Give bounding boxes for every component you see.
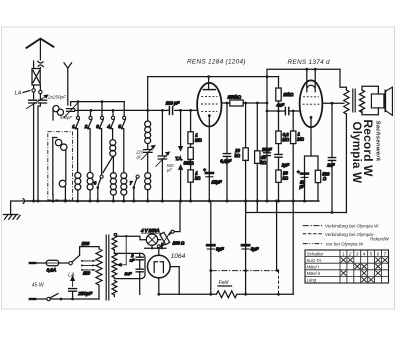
- mains switch S1b: [47, 294, 99, 301]
- switch contact 2: [84, 110, 92, 172]
- wire lamp cathode row: [145, 245, 166, 248]
- svg-text:2μF: 2μF: [281, 163, 290, 168]
- svg-text:RekordW: RekordW: [370, 237, 390, 242]
- svg-text:Verbindung bei Olympia W: Verbindung bei Olympia W: [325, 224, 379, 229]
- svg-text:2nF: 2nF: [326, 162, 335, 167]
- tube U1 cathode: [208, 114, 211, 201]
- transformer T1 core: [106, 235, 109, 301]
- tube U2 RENS1374d envelope: [300, 80, 323, 127]
- antenna A: [26, 39, 54, 61]
- svg-text:7: 7: [384, 251, 387, 256]
- terminal LA (antenna): [15, 89, 43, 97]
- svg-text:Mittel II: Mittel II: [307, 271, 321, 276]
- svg-text:Record W: Record W: [361, 120, 375, 178]
- coil L7: [121, 173, 127, 201]
- antenna terminal fork 2: [64, 63, 72, 105]
- capacitor C 10uF: [297, 169, 308, 189]
- svg-text:MΩ: MΩ: [195, 138, 202, 143]
- output transformer T2 core: [353, 89, 355, 113]
- capacitor C cathode 15uF: [203, 168, 222, 185]
- label 45W: [32, 283, 45, 289]
- electrolytic 8uF no1: [207, 201, 224, 294]
- coupling coil L1 with trimmer 550pF: [53, 104, 77, 120]
- shield box (dash-dot): [48, 132, 73, 200]
- output transformer T2 secondary: [359, 90, 364, 112]
- svg-text:kΩ: kΩ: [195, 175, 201, 180]
- svg-text:Kurz TA: Kurz TA: [307, 258, 322, 263]
- transformer T1 secondary S2: [112, 253, 117, 277]
- svg-text:50kΩ: 50kΩ: [184, 161, 195, 166]
- wire L5 diagonal to contact 6: [103, 156, 113, 172]
- svg-text:4: 4: [363, 251, 366, 256]
- svg-text:MΩ: MΩ: [297, 137, 304, 142]
- svg-text:pF: pF: [136, 154, 142, 159]
- label RENS 1284 (1204): [187, 59, 246, 66]
- tube U1 grids: [201, 97, 218, 112]
- wire lamp node to bus: [175, 201, 180, 232]
- svg-text:15μF: 15μF: [212, 180, 222, 185]
- tap arrow S2: [118, 235, 128, 266]
- legend line Olympia-Record W (dashed): [303, 232, 390, 242]
- parallel block node wires: [305, 156, 319, 201]
- coil L9: [145, 173, 151, 201]
- capacitor C 2uF: [275, 144, 290, 170]
- coil L3: [75, 172, 81, 201]
- wire S2 loop to rectifier: [114, 253, 145, 278]
- svg-text:μF: μF: [299, 184, 305, 189]
- capacitor 250pF: [69, 289, 93, 299]
- label RENS 1374 d: [288, 59, 331, 66]
- svg-text:8μF: 8μF: [251, 246, 259, 251]
- variable capacitor 220pF: [141, 146, 154, 173]
- svg-text:550pF: 550pF: [60, 115, 72, 120]
- connector hook on ground bus: [23, 199, 24, 204]
- legend line Olympia W (dash-dot): [303, 224, 379, 229]
- wire screen feed: [276, 201, 278, 271]
- svg-text:kΩ: kΩ: [261, 160, 267, 165]
- resistor R5 20kOhm: [234, 103, 248, 201]
- field coil resistor zigzag: [159, 291, 293, 298]
- variable capacitor 500pF: [156, 110, 169, 201]
- switch contact 6: [94, 175, 104, 201]
- brand text Sachsenwerk: [375, 121, 381, 162]
- resistor R2 50kOhm: [184, 144, 195, 166]
- svg-text:RENS 1284 (1204): RENS 1284 (1204): [187, 59, 246, 66]
- lightning arrester: [32, 61, 40, 99]
- svg-text:pF: pF: [166, 168, 172, 173]
- label 220pF: [135, 150, 144, 160]
- switch contact 4: [107, 110, 114, 139]
- resistor R8 0,2MOhm: [276, 111, 290, 144]
- coil L8 tall: [145, 77, 151, 149]
- svg-text:1: 1: [342, 251, 345, 256]
- dashed link wire: [278, 271, 280, 295]
- svg-text:0,8A: 0,8A: [47, 267, 56, 272]
- resistor R9 80kOhm: [276, 170, 289, 201]
- svg-text:110: 110: [83, 271, 91, 276]
- wire heater S1 to lamp: [114, 234, 146, 240]
- coil L2 in shield box: [53, 138, 67, 195]
- resistor R7 10kOhm: [276, 77, 294, 111]
- tube U2 grids: [303, 97, 320, 104]
- svg-text:10kΩ: 10kΩ: [283, 92, 294, 97]
- svg-text:4nF: 4nF: [276, 103, 284, 108]
- svg-text:2nF: 2nF: [124, 271, 132, 276]
- svg-text:220: 220: [81, 241, 90, 246]
- field coil Feld: [218, 280, 232, 286]
- terminal LA (lamp): [68, 272, 75, 278]
- svg-text:6: 6: [94, 180, 97, 185]
- resistor R11 500Ohm: [315, 170, 330, 201]
- svg-text:Feld: Feld: [219, 280, 229, 286]
- arrow LA: [71, 277, 74, 287]
- svg-text:110 pF: 110 pF: [166, 100, 180, 105]
- switch contact 7: [130, 175, 140, 201]
- svg-text:45 W: 45 W: [32, 283, 45, 289]
- svg-text:Lang: Lang: [307, 278, 317, 283]
- capacitor C 4nF coupling: [267, 103, 300, 115]
- wire grid bus y110: [75, 109, 198, 111]
- speaker: [362, 86, 392, 115]
- svg-text:kΩ: kΩ: [235, 153, 241, 158]
- switch contact 5: [118, 102, 125, 172]
- wire 220 tap: [80, 241, 99, 255]
- wire bottom return up: [292, 201, 294, 294]
- svg-text:RENS 1374 d: RENS 1374 d: [288, 59, 331, 66]
- pickup terminal TA: [175, 110, 182, 201]
- voltage taps arrows: [81, 260, 96, 276]
- capacitor C 2nF tone: [326, 103, 335, 212]
- output transformer T2 primary: [344, 87, 349, 212]
- rectifier anodes: [154, 262, 163, 273]
- label 1064: [171, 253, 186, 260]
- svg-text:25μF: 25μF: [261, 147, 272, 152]
- capacitor 2nF rect lower: [124, 269, 144, 294]
- tube U2 cathode: [310, 116, 313, 156]
- svg-text:Verbindung bei Olympia-: Verbindung bei Olympia-: [325, 232, 375, 237]
- mains lead 2: [30, 298, 47, 300]
- tube U1 RENS1284 envelope: [197, 83, 221, 127]
- svg-text:LA: LA: [68, 272, 75, 278]
- ground symbol: [4, 201, 24, 219]
- resistor R6 60kOhm: [255, 103, 267, 201]
- pilot lamp 4V 10RA: [141, 228, 162, 246]
- svg-text:3: 3: [356, 251, 359, 256]
- svg-text:7: 7: [130, 180, 133, 185]
- svg-text:100 Ω: 100 Ω: [173, 240, 185, 245]
- transformer T1 secondary S3: [112, 281, 117, 297]
- svg-text:6: 6: [377, 251, 380, 256]
- svg-text:nF: nF: [130, 258, 135, 263]
- bus 2: [246, 201, 347, 213]
- svg-text:+: +: [297, 169, 300, 174]
- wire B+ to transformer: [340, 69, 346, 87]
- svg-text:1064: 1064: [171, 253, 186, 260]
- resistor R1 1MOhm: [188, 110, 203, 143]
- wire anode top bus: [148, 76, 279, 78]
- table row labels: [307, 258, 322, 283]
- legend line nur bei Olympia W (dash-dot-dot): [303, 242, 364, 247]
- svg-text:250pF: 250pF: [77, 291, 93, 297]
- resistor R3 1kOhm: [188, 159, 201, 201]
- switch table frame: [305, 250, 389, 283]
- tube U2 heater top: [307, 69, 315, 92]
- svg-text:kΩ: kΩ: [283, 176, 289, 181]
- capacitor 110pF: [166, 100, 180, 114]
- trimmer capacitor 2x250pF: [27, 95, 48, 108]
- table header labels: [307, 251, 387, 256]
- dash-dot link wire: [211, 270, 279, 272]
- transformer T1 secondary S1: [112, 234, 117, 253]
- wire L1 to switch bus: [71, 102, 125, 106]
- wire box coil to ground bus: [53, 187, 65, 201]
- svg-text:2: 2: [348, 251, 352, 256]
- label 500pF: [166, 163, 174, 173]
- fuse 0,8A: [46, 260, 69, 272]
- rectifier top lead: [157, 245, 160, 256]
- svg-text:Sachsenwerk: Sachsenwerk: [375, 121, 381, 162]
- switch contact 3: [96, 102, 103, 175]
- wire rectifier output: [159, 267, 179, 295]
- svg-text:T.A.: T.A.: [175, 156, 182, 161]
- svg-text:Olympia W: Olympia W: [350, 122, 363, 184]
- capacitor C 0,1uF: [220, 103, 231, 201]
- transformer T1 primary: [96, 247, 102, 299]
- brand text Olympia W: [350, 122, 363, 184]
- antenna plug break: [38, 61, 44, 67]
- table X marks: [341, 257, 388, 282]
- svg-text:MΩ: MΩ: [282, 137, 289, 142]
- resistor R12 100Ohm: [158, 230, 185, 246]
- wire U2 anode to output transformer: [322, 102, 344, 104]
- wire antenna coupling down: [34, 103, 41, 201]
- mains switch S1a: [69, 255, 80, 265]
- resistor R4 258kOhm: [222, 94, 268, 106]
- svg-text:4 V 10RA: 4 V 10RA: [141, 228, 160, 233]
- svg-text:5: 5: [370, 251, 373, 256]
- coil L5 (osc mid): [110, 140, 116, 157]
- mains lead 1: [30, 262, 47, 264]
- svg-text:Schalter: Schalter: [307, 251, 324, 256]
- svg-text:8μF: 8μF: [216, 246, 224, 251]
- switch contact 1: [72, 102, 79, 172]
- svg-text:+: +: [203, 168, 206, 173]
- coil L6: [110, 156, 116, 201]
- wire top bus 2: [267, 69, 340, 201]
- svg-text:LA: LA: [15, 91, 22, 97]
- label 550pF: [60, 115, 72, 120]
- capacitor C 25uF: [261, 147, 272, 156]
- ground bus wire: [26, 200, 319, 202]
- coil L4: [87, 172, 93, 201]
- rectifier tube V3 1064: [148, 255, 171, 278]
- electrolytic 8uF no2: [242, 201, 259, 294]
- tube U1 anode: [203, 77, 215, 90]
- svg-text:Mittel I: Mittel I: [307, 265, 320, 270]
- resistor R10 1MOhm grid2: [291, 111, 305, 201]
- brand text Record W: [361, 120, 375, 178]
- svg-text:2x250pF: 2x250pF: [47, 94, 67, 99]
- capacitor 2nF rect upper: [130, 253, 143, 268]
- svg-text:258kΩ: 258kΩ: [227, 94, 242, 99]
- svg-text:nur bei Olympia W: nur bei Olympia W: [326, 242, 364, 247]
- label 2x250pF: [47, 94, 67, 99]
- svg-text:0,1μF: 0,1μF: [220, 158, 231, 163]
